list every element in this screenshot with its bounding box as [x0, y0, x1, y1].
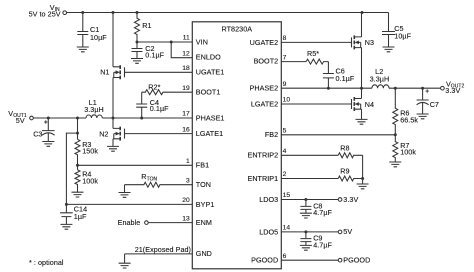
- IC U1 RT8230A body: [192, 22, 281, 269]
- resistor R3: [75, 139, 80, 170]
- resistor R4: [75, 170, 80, 192]
- svg-text:12: 12: [182, 51, 190, 58]
- svg-text:1: 1: [186, 158, 190, 165]
- svg-text:10µF: 10µF: [394, 32, 411, 41]
- capacitor C14: [60, 204, 73, 224]
- node junction R6: [394, 87, 397, 90]
- svg-text:66.5k: 66.5k: [400, 115, 418, 124]
- svg-text:R8: R8: [340, 143, 349, 152]
- svg-text:PGOOD: PGOOD: [343, 256, 370, 265]
- wire R2 to C4: [141, 92, 143, 104]
- inductor L1: [86, 115, 102, 118]
- capacitor C7 polarized: [426, 89, 429, 92]
- wire BOOT2 pin 7: [281, 61, 306, 63]
- capacitor C3 polarized: [44, 120, 47, 123]
- ground N2: [107, 146, 119, 151]
- ground C14: [60, 224, 72, 229]
- wire N4 source: [361, 109, 363, 119]
- svg-text:18: 18: [182, 65, 190, 72]
- capacitor C9: [300, 232, 311, 245]
- transistor Q N1: [113, 65, 125, 79]
- svg-text:17: 17: [182, 111, 190, 118]
- svg-text:BYP1: BYP1: [196, 200, 215, 209]
- svg-text:100k: 100k: [400, 148, 416, 157]
- node PGOOD terminal: [338, 258, 342, 262]
- node junction R8 R9: [361, 177, 364, 180]
- svg-text:0.1µF: 0.1µF: [150, 104, 169, 113]
- capacitor C2: [132, 42, 143, 58]
- svg-text:10µF: 10µF: [90, 33, 107, 42]
- node junction C9: [304, 230, 307, 233]
- svg-text:BOOT1: BOOT1: [196, 88, 221, 97]
- resistor R8: [338, 153, 362, 158]
- resistor R9: [338, 176, 362, 181]
- node 3.3V terminal: [338, 198, 342, 202]
- svg-text:9: 9: [283, 81, 287, 88]
- wire ENTRIP2 pin 4: [281, 154, 338, 156]
- wire R8 drop: [362, 155, 364, 178]
- node junction N1 drain on rail: [112, 11, 115, 14]
- node 5V terminal: [338, 230, 342, 234]
- svg-text:RT8230A: RT8230A: [222, 24, 253, 33]
- wire FB1 pin 1: [78, 164, 193, 166]
- svg-text:N3: N3: [365, 38, 374, 47]
- node junction R3 top tee: [76, 132, 79, 135]
- svg-text:21(Exposed Pad): 21(Exposed Pad): [135, 245, 191, 254]
- svg-text:1µF: 1µF: [74, 212, 87, 221]
- transistor Q N3: [352, 35, 362, 49]
- node junction C7: [421, 87, 424, 90]
- node VIN terminal: [63, 11, 67, 15]
- svg-text:4.7µF: 4.7µF: [313, 208, 332, 217]
- svg-text:R2*: R2*: [148, 82, 160, 91]
- ground R7: [389, 162, 401, 167]
- ground C2: [131, 59, 143, 64]
- wire N2 source: [112, 139, 114, 146]
- node junction C14: [65, 203, 68, 206]
- transistor Q N4: [352, 97, 362, 111]
- wire BYP jog: [66, 133, 77, 204]
- wire ENTRIP1 pin 2: [281, 178, 338, 180]
- wire C5 drop from rail: [388, 13, 390, 32]
- node junction divider: [76, 117, 79, 120]
- svg-text:FB2: FB2: [265, 130, 278, 139]
- svg-text:TON: TON: [147, 176, 158, 182]
- svg-text:2: 2: [283, 171, 287, 178]
- resistor R7: [393, 135, 398, 162]
- wire UGATE2 pin 8: [281, 41, 351, 43]
- svg-text:BOOT2: BOOT2: [254, 57, 279, 66]
- ground RTON: [119, 193, 131, 198]
- node Enable terminal: [145, 221, 149, 225]
- svg-text:LGATE1: LGATE1: [196, 129, 223, 138]
- ground N4: [356, 119, 368, 124]
- svg-text:PHASE2: PHASE2: [250, 84, 279, 93]
- svg-text:3: 3: [186, 177, 190, 184]
- svg-text:7: 7: [283, 54, 287, 61]
- svg-text:R5*: R5*: [307, 49, 319, 58]
- wire LDO5 pin 14: [281, 231, 338, 233]
- wire PHASE1 pin 17: [33, 117, 192, 119]
- wire ENM pin 13: [148, 222, 192, 224]
- svg-text:5V: 5V: [16, 116, 25, 125]
- svg-text:LGATE2: LGATE2: [251, 99, 278, 108]
- svg-text:N4: N4: [365, 100, 374, 109]
- svg-text:150k: 150k: [82, 146, 98, 155]
- capacitor C6: [323, 74, 334, 89]
- resistor R6: [393, 88, 398, 135]
- svg-text:0.1µF: 0.1µF: [336, 74, 355, 83]
- node VOUT2 terminal: [441, 86, 445, 90]
- wire FB2 pin 5: [281, 134, 395, 136]
- svg-text:R9: R9: [340, 167, 349, 176]
- ground R4: [72, 192, 84, 197]
- svg-text:N1: N1: [100, 67, 109, 76]
- wire LGATE2 pin 10: [281, 103, 351, 105]
- node junction below R1: [136, 41, 139, 44]
- svg-text:ENLDO: ENLDO: [196, 52, 221, 61]
- svg-text:N2: N2: [99, 129, 108, 138]
- node junction FB1: [76, 164, 79, 167]
- svg-text:ENTRIP2: ENTRIP2: [247, 151, 278, 160]
- wire N3 drain: [361, 13, 363, 37]
- svg-text:UGATE2: UGATE2: [250, 38, 279, 47]
- wire N1 source to phase node: [112, 78, 114, 119]
- wire LGATE1 pin 16: [125, 133, 193, 135]
- ground C9: [300, 245, 312, 250]
- wire top input rail: [67, 12, 389, 14]
- node junction ENLDO tee: [170, 41, 173, 44]
- svg-text:14: 14: [283, 225, 291, 232]
- ground C1: [77, 47, 89, 52]
- wire N1 drain from rail: [112, 13, 114, 67]
- wire BYP1 pin 20: [66, 203, 192, 205]
- svg-text:PHASE1: PHASE1: [196, 113, 225, 122]
- ground C7: [417, 114, 429, 119]
- svg-text:VIN: VIN: [196, 37, 208, 46]
- svg-text:8: 8: [283, 35, 287, 42]
- node VOUT1 terminal: [30, 116, 34, 120]
- capacitor C8: [300, 200, 311, 214]
- node junction fets phase2: [360, 87, 363, 90]
- node junction phase fets: [112, 117, 115, 120]
- svg-text:TON: TON: [196, 180, 211, 189]
- resistor R2*: [142, 90, 193, 95]
- wire PHASE2 pin 9: [281, 87, 440, 89]
- capacitor C1: [77, 13, 88, 48]
- wire LDO3 pin 15: [281, 199, 338, 201]
- svg-text:5V: 5V: [343, 227, 352, 236]
- svg-text:19: 19: [182, 85, 190, 92]
- wire RTON to ground: [124, 185, 126, 193]
- svg-text:GND: GND: [196, 249, 212, 258]
- svg-text:20: 20: [182, 197, 190, 204]
- node junction C4 phase: [140, 117, 143, 120]
- svg-text:LDO3: LDO3: [259, 195, 278, 204]
- node junction C6 phase2: [327, 87, 330, 90]
- svg-text:C7: C7: [430, 100, 439, 109]
- svg-text:PGOOD: PGOOD: [251, 256, 278, 265]
- wire N4 drain: [361, 88, 363, 98]
- svg-text:LDO5: LDO5: [259, 227, 278, 236]
- wire VIN pin 11: [137, 41, 192, 43]
- svg-text:100k: 100k: [82, 176, 98, 185]
- wire PGOOD pin 6: [281, 259, 338, 261]
- svg-text:FB1: FB1: [196, 161, 209, 170]
- transistor Q N2: [112, 118, 114, 128]
- svg-text:13: 13: [182, 215, 190, 222]
- svg-text:ENM: ENM: [196, 218, 212, 227]
- resistor R5*: [306, 59, 328, 64]
- capacitor C5: [382, 32, 395, 47]
- svg-text:16: 16: [182, 126, 190, 133]
- capacitor C4: [136, 104, 147, 118]
- inductor L2: [372, 85, 389, 88]
- svg-text:11: 11: [183, 35, 190, 42]
- svg-text:3.3V: 3.3V: [445, 86, 460, 95]
- node junction C3: [47, 117, 50, 120]
- node junction C8: [304, 198, 307, 201]
- svg-text:C3: C3: [33, 130, 42, 139]
- wire N3 source to phase2: [361, 48, 363, 89]
- node junction R1 on rail: [136, 11, 139, 14]
- svg-text:3.3V: 3.3V: [343, 195, 358, 204]
- node junction C1 on rail: [81, 11, 84, 14]
- svg-text:3.3µH: 3.3µH: [370, 75, 390, 84]
- wire R9 to ground: [362, 179, 364, 184]
- wire divider drop: [77, 118, 79, 139]
- svg-text:10: 10: [283, 97, 291, 104]
- wire R5 to C6: [327, 62, 329, 74]
- svg-text:5: 5: [283, 128, 287, 135]
- svg-text:3.3µH: 3.3µH: [84, 105, 104, 114]
- wire GND exposed pad: [125, 254, 193, 263]
- svg-text:Enable: Enable: [118, 218, 141, 227]
- resistor RTON: [125, 182, 193, 187]
- svg-text:R1: R1: [142, 21, 151, 30]
- svg-text:6: 6: [283, 253, 287, 260]
- ground C8: [300, 213, 312, 218]
- ground C5: [383, 47, 395, 52]
- svg-text:15: 15: [283, 192, 291, 199]
- svg-text:5V to 25V: 5V to 25V: [29, 9, 61, 18]
- ground C3: [42, 142, 54, 147]
- svg-text:4: 4: [283, 148, 287, 155]
- svg-text:* : optional: * : optional: [29, 258, 64, 267]
- svg-text:4.7µF: 4.7µF: [313, 240, 332, 249]
- wire ENLDO pin 12: [171, 42, 192, 58]
- svg-text:0.1µF: 0.1µF: [145, 51, 164, 60]
- svg-text:UGATE1: UGATE1: [196, 68, 225, 77]
- node junction FB2: [394, 133, 397, 136]
- node junction N3 drain on rail: [361, 11, 364, 14]
- svg-text:ENTRIP1: ENTRIP1: [247, 174, 278, 183]
- ground R9: [357, 184, 369, 189]
- ground exposed pad: [119, 263, 131, 268]
- wire UGATE1 pin 18: [125, 71, 193, 73]
- resistor R1: [135, 13, 140, 43]
